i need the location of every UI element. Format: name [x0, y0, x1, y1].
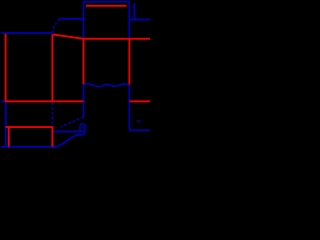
edge B6 tuck right vertical	[128, 2, 130, 39]
cut slope R4	[53, 34, 85, 38]
carton dieline drawing	[0, 0, 150, 150]
edge B13 bottom curve	[1, 132, 85, 147]
cut line R3 second vertical	[51, 34, 53, 101]
edge B4 tuck left vertical	[83, 2, 85, 39]
edge B10 right vertical	[128, 85, 130, 130]
fold curve B2 dashed corner bend	[53, 19, 60, 33]
thumb loop	[80, 124, 86, 132]
zipper wave B8	[84, 84, 129, 87]
cut line R8 tuck top cut	[86, 5, 127, 7]
cut line R5 main horizontal	[84, 38, 150, 40]
edge B5 tuck top	[83, 1, 130, 3]
fold line B7 right wing crease	[129, 19, 150, 21]
cut line R11 narrow flap vertical	[8, 127, 10, 147]
cut line R7 panel vertical right	[128, 39, 130, 85]
edge B11 bottom right horizontal	[129, 129, 150, 131]
fold line B1 left lid crease	[1, 32, 52, 34]
edge B12 left vertical	[5, 102, 7, 147]
stub left of junction	[2, 100, 6, 102]
edge B-tab short vertical	[133, 3, 135, 20]
edge B9 vertical below zipper	[83, 84, 85, 117]
cut line R1 left vertical	[5, 34, 7, 102]
cut line R10 bottom flap horizontal	[6, 126, 54, 128]
fold line B3 upper crease	[60, 18, 84, 20]
cut line R9b lower horizontal right	[130, 100, 151, 102]
tiny dash mark	[137, 120, 141, 122]
cut line R9a lower horizontal left	[5, 100, 83, 102]
cut line R3b bottom flap vertical	[51, 127, 53, 147]
dashed vertical perforation	[51, 102, 53, 127]
fold line H1 tear strip top	[54, 131, 80, 133]
cut line R6 panel vertical	[83, 39, 85, 84]
loop dot	[82, 127, 84, 129]
dashed tear diagonal D1	[61, 117, 84, 127]
